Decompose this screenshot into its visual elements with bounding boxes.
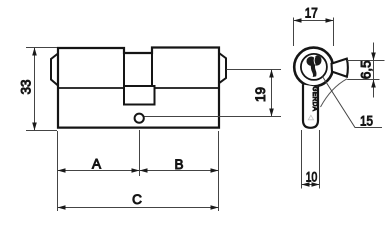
keyway left lobe — [307, 57, 316, 66]
barrel bottom line left — [58, 87, 123, 89]
bridge left edge — [123, 48, 125, 86]
dim 33 arrow down — [32, 123, 37, 131]
barrel bottom line right — [155, 87, 220, 89]
svg-text:33: 33 — [19, 79, 34, 94]
dim 6,5 arrow down — [371, 53, 376, 61]
dim C arrow right — [211, 205, 219, 210]
dim 10 extension left — [301, 130, 303, 189]
dim 33 arrow up — [32, 48, 37, 56]
right plug protrusion — [219, 53, 226, 83]
fixing screw hole — [135, 114, 144, 123]
dim 6,5 extension top — [347, 60, 385, 62]
dim 19 extension top (axis) — [227, 69, 282, 71]
dim 10 arrow left — [302, 182, 310, 187]
dim 17 extension right — [333, 18, 335, 47]
dim 17 arrow left — [294, 18, 302, 23]
dim 6,5 extension bottom — [347, 79, 379, 81]
front view: plug circle — [301, 54, 327, 80]
dim A arrow right — [132, 168, 140, 173]
leader 15 — [323, 77, 383, 128]
dim 33 line — [34, 48, 36, 131]
keyway right lobe — [314, 55, 322, 65]
dim B arrow left — [140, 168, 148, 173]
svg-text:15: 15 — [360, 113, 373, 128]
dim 19 line — [271, 70, 273, 117]
svg-text:17: 17 — [305, 6, 318, 21]
bridge right edge — [151, 48, 153, 87]
screw hole leader / dim 19 extension bottom — [145, 116, 282, 118]
dim 33 extension top — [26, 47, 57, 49]
svg-text:10: 10 — [306, 170, 318, 185]
dim 17 extension left — [293, 18, 295, 47]
cam nose — [332, 59, 348, 77]
left plug protrusion — [51, 54, 58, 86]
svg-text:A: A — [92, 157, 101, 172]
extension line middle (A/B) — [139, 130, 141, 176]
dim 33 extension bottom — [26, 130, 57, 132]
dim 10 arrow right — [312, 182, 320, 187]
dim B arrow right — [211, 168, 219, 173]
dim 10 extension right — [319, 130, 321, 189]
svg-text:19: 19 — [253, 87, 268, 102]
extension line left (A,C) — [57, 131, 59, 211]
cylinder body outline (side view) — [58, 48, 219, 128]
dim 17 arrow right — [326, 18, 334, 23]
cam swing arc — [321, 79, 348, 107]
brand triangle logo — [308, 115, 313, 120]
svg-text:B: B — [174, 157, 183, 172]
front view: outer barrel circle — [294, 48, 333, 87]
keyway white separator — [314, 56, 315, 64]
svg-text:C: C — [132, 192, 142, 207]
dim 6,5 arrow up — [371, 80, 376, 88]
dim C line — [58, 207, 219, 209]
keyway stem — [311, 63, 317, 77]
svg-text:GERDA: GERDA — [311, 87, 318, 112]
cam rectangle — [124, 86, 155, 105]
svg-text:6,5: 6,5 — [359, 60, 374, 79]
dim 17 line — [294, 20, 334, 22]
dim A arrow left — [58, 168, 66, 173]
dim C arrow left — [58, 205, 66, 210]
dim 19 arrow down — [269, 109, 274, 117]
dim 19 arrow up — [269, 70, 274, 78]
dim A/B line — [58, 170, 219, 172]
front view: body — [303, 85, 318, 128]
extension line right (B,C) — [218, 131, 220, 211]
dim 10 line — [302, 184, 320, 186]
dim 6,5 line — [373, 43, 375, 98]
